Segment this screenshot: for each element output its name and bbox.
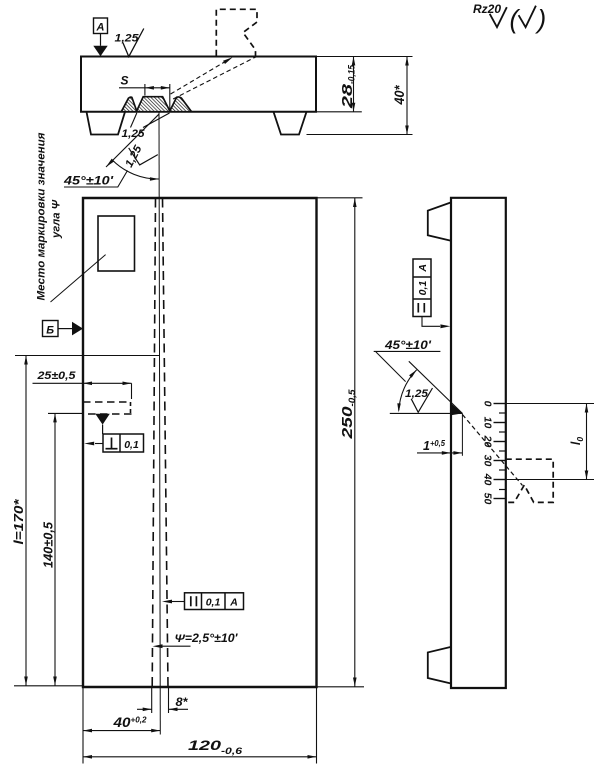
svg-text:20: 20 [482, 435, 494, 448]
svg-text:8*: 8* [176, 695, 189, 709]
svg-text:50: 50 [482, 493, 494, 505]
dim 40* label [391, 85, 407, 105]
perpendicularity frame leader arrow [84, 442, 103, 446]
rotated roughness 1,25 on flank [123, 143, 158, 170]
datum triangle on hidden face [95, 414, 110, 425]
leader to tooth flank 2 [143, 113, 170, 128]
top view left foot [87, 112, 126, 135]
detail view dashed outline with break [216, 9, 257, 56]
dim 40+0,2 label [112, 715, 146, 731]
svg-text:1,25: 1,25 [122, 128, 146, 140]
dim 250-0,5 line with arrows [353, 198, 357, 687]
vertical tolerance frame 0,1 A [413, 259, 431, 317]
leader to tooth flank 1 [131, 113, 137, 128]
top view right foot [274, 112, 307, 135]
tooth flank 45 deg line [106, 114, 159, 167]
svg-text:140±0,5: 140±0,5 [42, 521, 56, 568]
dim 250-0,5 bottom extension [317, 686, 365, 688]
svg-text:A: A [229, 597, 238, 609]
datum stem to frame [102, 425, 104, 434]
note text: Place for marking angle value [36, 132, 63, 301]
chamfer line 45 deg [409, 361, 463, 413]
surface note checkmark [490, 7, 507, 27]
dim 40* bottom extension [307, 134, 413, 136]
dim l0 line with arrows [585, 404, 589, 480]
dim 120-0,6 label [188, 737, 243, 756]
svg-text:0,1: 0,1 [417, 281, 429, 296]
vertex extension line [461, 413, 463, 455]
dim l=170* label [11, 498, 26, 544]
roughness 1,25 at datum A surface [115, 29, 144, 57]
svg-text:угла Ψ: угла Ψ [51, 199, 63, 239]
note leader line [51, 255, 106, 302]
roughness 1,25 on chamfer [405, 388, 433, 412]
datum A frame [94, 18, 108, 34]
roughness 1,25 label at teeth [122, 128, 146, 140]
parallelism frame leader arrow [162, 600, 185, 604]
svg-text:Ψ=2,5°±10': Ψ=2,5°±10' [175, 633, 239, 645]
dim 8* label [176, 695, 189, 709]
dim 250-0,5 label [339, 388, 357, 439]
bottom extension line left [14, 685, 83, 687]
hidden step dashed line upper [83, 401, 130, 403]
dim 25±0,5 top extension line [15, 355, 160, 357]
dim 25±0,5 label [36, 370, 76, 382]
angle 45±10' label and leader [63, 171, 128, 188]
wedge scale labels 0-50 [482, 401, 494, 505]
svg-text:0,1: 0,1 [206, 597, 221, 609]
svg-text:Б: Б [46, 325, 54, 337]
svg-text:0,1: 0,1 [124, 439, 139, 451]
svg-text:45°±10': 45°±10' [384, 338, 432, 352]
marking area rectangle [98, 216, 135, 271]
svg-text:40*: 40* [391, 85, 407, 105]
svg-text:A: A [96, 22, 105, 34]
surface note (v) parentheses and check [510, 4, 547, 34]
angle 45 arc with arrow [113, 161, 159, 181]
detail dashed box side view [506, 459, 553, 502]
hidden slot edge right (dashed) [163, 199, 169, 688]
hidden slot edge left (dashed) [152, 199, 155, 688]
dim l0 extension lines [506, 404, 594, 480]
dim 250-0,5 top extension [317, 197, 363, 199]
side view outline [451, 198, 506, 688]
S dimension label [121, 74, 129, 88]
parallel 45 line [376, 352, 406, 382]
datum B stem [58, 328, 72, 330]
dim 40* line with arrows [405, 57, 409, 135]
dim 40* top extension [316, 56, 413, 58]
angle Psi label [175, 633, 239, 645]
detail projection dashed leader with arrow [171, 57, 233, 94]
datum A stem [100, 34, 102, 46]
angle 45±10' label side view [374, 338, 441, 352]
svg-text:40: 40 [482, 473, 494, 486]
parallelism frame 0,1 A [185, 593, 244, 610]
datum A filled triangle [93, 46, 107, 57]
svg-text:30: 30 [482, 455, 494, 467]
dim 8* extension lines [152, 688, 169, 713]
serration teeth profile (hatched) [121, 97, 191, 112]
S dimension line with arrows [119, 86, 170, 90]
svg-text:S: S [121, 74, 129, 88]
dim 120-0,6 line with arrows [83, 755, 317, 759]
dim 8* arrows [137, 708, 188, 712]
left edge extension below [82, 687, 84, 764]
dim 25±0,5 line with arrows [33, 382, 132, 400]
dim 140±0,5 label [42, 521, 56, 568]
hidden step dashed corner [130, 402, 132, 414]
hidden step dashed line lower [88, 413, 132, 415]
angle 45 arc side view [397, 370, 416, 413]
side view top foot tab [428, 202, 451, 240]
dim l=170* line with arrows [24, 356, 28, 686]
dim 28-0,15 label [339, 64, 357, 109]
dim 140±0,5 top extension [48, 412, 83, 414]
svg-text:l=170*: l=170* [11, 498, 26, 544]
chamfer notch filled [451, 403, 462, 415]
dim l0 label [569, 437, 585, 445]
dim 140±0,5 line with arrows [53, 413, 57, 685]
svg-text:45°±10': 45°±10' [63, 174, 115, 188]
side view bottom foot tab [428, 647, 451, 684]
angle baseline [390, 412, 463, 414]
dim 40+0,2 line with arrows [83, 729, 160, 733]
svg-text:Место маркировки значения: Место маркировки значения [36, 132, 48, 301]
svg-text:Rz20: Rz20 [473, 2, 501, 16]
svg-text:1,25: 1,25 [405, 388, 429, 400]
wedge scale ruler ticks [494, 404, 506, 499]
dim 1+0,5 side view [417, 438, 462, 455]
datum B frame [43, 321, 59, 337]
svg-text:0: 0 [482, 401, 494, 407]
hidden incline dashed line [462, 415, 522, 486]
perpendicularity frame 0,1 [103, 434, 144, 452]
svg-text:10: 10 [482, 417, 494, 429]
S pitch extension lines [145, 84, 170, 111]
dim 28-0,15 extension line [316, 111, 362, 113]
dim 28-0,15 line with arrows [352, 57, 356, 112]
datum B filled triangle [72, 322, 83, 336]
angle Psi leader arrow [153, 644, 191, 648]
svg-text:A: A [417, 264, 429, 273]
front view outline [83, 198, 317, 687]
svg-text:25±0,5: 25±0,5 [36, 370, 76, 382]
surface note Rz20 [473, 2, 501, 16]
detail projection dashed leader 2 [173, 56, 257, 99]
top view body (bar) [81, 57, 316, 112]
vertical frame leader arrow [422, 317, 450, 329]
tooth axis vertical line [159, 112, 160, 735]
right edge extension below [316, 687, 318, 764]
